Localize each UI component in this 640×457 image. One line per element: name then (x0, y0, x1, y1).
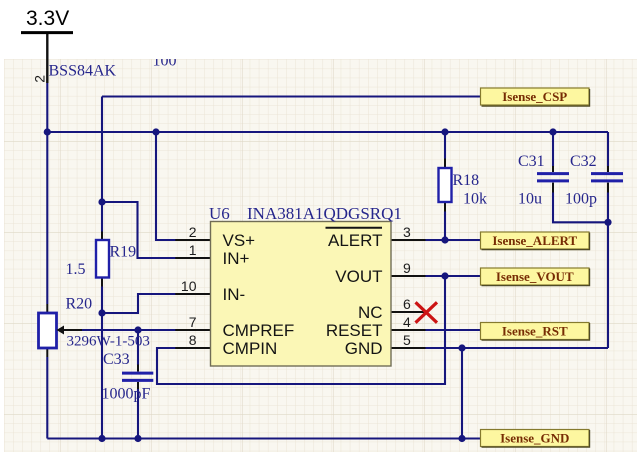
node GND rail C33 (134, 435, 141, 442)
R18 pins (444, 159, 446, 212)
node pot/rail (44, 128, 51, 135)
wire VOUT to port (426, 275, 481, 277)
no-connect X on pin 6 (416, 302, 438, 322)
svg-text:C31: C31 (518, 153, 545, 170)
wire RESET to port (426, 329, 481, 331)
svg-text:1.5: 1.5 (66, 261, 86, 278)
power symbol 3.3V (21, 7, 73, 33)
svg-text:10: 10 (181, 278, 197, 294)
transistor BSS84AK pin 2 stub (46, 34, 48, 84)
svg-text:2: 2 (31, 75, 47, 83)
svg-text:CMPIN: CMPIN (223, 339, 278, 358)
svg-text:INA381A1QDGSRQ1: INA381A1QDGSRQ1 (247, 204, 402, 223)
capacitor C31 plates (537, 174, 569, 181)
R19 pins (101, 232, 103, 287)
wire right rail vertical through C32 (607, 132, 609, 167)
wire R19 chain vertical (101, 202, 103, 232)
wire IN- branch (102, 294, 176, 313)
wire Isense_CSP net (102, 97, 481, 203)
resistor value label 100 (clipped at sheet top) (153, 53, 177, 70)
ALERT overline (326, 227, 383, 229)
wire 3.3V rail vertical (pot branch) (47, 83, 608, 439)
C33 pins (137, 365, 139, 390)
pot bottom pin (46, 348, 48, 357)
svg-text:IN-: IN- (223, 285, 246, 304)
svg-text:Isense_CSP: Isense_CSP (502, 89, 567, 104)
svg-text:R19: R19 (110, 244, 137, 261)
svg-text:Isense_ALERT: Isense_ALERT (492, 233, 577, 248)
capacitor C33 plates (122, 373, 153, 380)
node GND rail drop (458, 435, 465, 442)
svg-text:C33: C33 (103, 351, 130, 368)
wire VS+ drop (156, 132, 176, 240)
pot wiper pin (62, 329, 82, 331)
wire C33 drop (137, 330, 139, 365)
node CMPREF/C33 (134, 326, 141, 333)
resistor R19 (96, 240, 109, 278)
svg-text:1: 1 (189, 242, 197, 258)
op-amp U6 body (211, 222, 392, 367)
svg-text:Isense_VOUT: Isense_VOUT (496, 269, 574, 284)
wire GND pin to C32 (426, 347, 609, 349)
wire ALERT to port (426, 239, 481, 241)
svg-text:R18: R18 (453, 172, 480, 189)
node C31/C32 (604, 219, 611, 226)
node VS+ drop (152, 128, 159, 135)
C32 pins (607, 166, 609, 193)
svg-text:6: 6 (403, 296, 411, 312)
wire CMPIN loop to VOUT (157, 276, 445, 384)
U6 right pin stubs 3,9,6,4,5 (391, 240, 426, 348)
svg-text:CMPREF: CMPREF (223, 321, 295, 340)
wire GND rail (47, 437, 480, 439)
black pin stubs (47, 34, 608, 390)
svg-text:5: 5 (403, 332, 411, 348)
svg-text:NC: NC (358, 303, 383, 322)
svg-text:100p: 100p (565, 191, 597, 208)
svg-text:7: 7 (189, 314, 197, 330)
port Isense_ALERT (481, 232, 590, 250)
node IN- / R19 bottom (98, 309, 105, 316)
node IN+ (98, 198, 105, 205)
svg-text:BSS84AK: BSS84AK (49, 63, 117, 80)
svg-text:3: 3 (403, 224, 411, 240)
node ALERT/R18 (441, 236, 448, 243)
wire CMPREF from wiper (82, 329, 176, 331)
svg-text:R20: R20 (66, 296, 93, 313)
svg-text:ALERT: ALERT (328, 231, 383, 250)
svg-text:U6: U6 (209, 204, 230, 223)
node GND pin (458, 344, 465, 351)
U6 left pin stubs 2,1,10,7,8 (175, 240, 210, 348)
potentiometer R20 wiper arrow (57, 326, 65, 335)
svg-text:3.3V: 3.3V (26, 7, 69, 30)
resistor R18 (439, 168, 452, 202)
node GND rail R19 (98, 435, 105, 442)
svg-text:1000pF: 1000pF (102, 386, 151, 403)
wire top 3.3V horizontal rail (47, 131, 608, 133)
port Isense_RST (481, 323, 590, 341)
wire IN+ branch (102, 202, 176, 258)
port Isense_GND (481, 430, 590, 448)
svg-text:GND: GND (345, 339, 383, 358)
node R18/rail (441, 128, 448, 135)
svg-text:8: 8 (189, 332, 197, 348)
svg-text:RESET: RESET (326, 321, 383, 340)
svg-text:C32: C32 (570, 153, 597, 170)
svg-text:9: 9 (403, 260, 411, 276)
node VOUT/CMPIN (441, 272, 448, 279)
svg-text:2: 2 (189, 224, 197, 240)
pot top pin (46, 304, 48, 313)
port Isense_CSP (481, 88, 590, 106)
svg-text:Isense_GND: Isense_GND (500, 431, 569, 446)
svg-text:4: 4 (403, 314, 411, 330)
svg-text:VS+: VS+ (223, 231, 256, 250)
wire R18 bottom (444, 212, 446, 241)
svg-text:3296W-1-503: 3296W-1-503 (67, 334, 150, 350)
svg-text:VOUT: VOUT (335, 267, 382, 286)
svg-text:10u: 10u (518, 191, 542, 208)
svg-text:IN+: IN+ (223, 249, 250, 268)
node C31/rail (549, 128, 556, 135)
potentiometer R20 body (39, 313, 57, 348)
wire C31 branch (553, 132, 608, 222)
svg-text:Isense_RST: Isense_RST (502, 324, 568, 339)
port Isense_VOUT (481, 268, 590, 286)
capacitor C32 plates (591, 174, 623, 181)
C31 pins (552, 166, 554, 193)
svg-text:10k: 10k (463, 191, 487, 208)
wire GND drop (461, 348, 463, 439)
wire R18 top (444, 132, 446, 159)
